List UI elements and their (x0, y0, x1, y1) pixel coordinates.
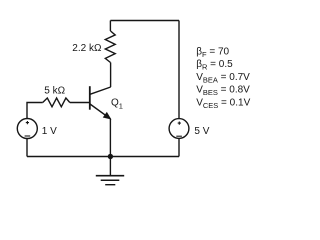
voltage source V2 5V (169, 119, 189, 139)
wire below 1V source (26, 139, 28, 157)
wire top rail (110, 20, 179, 22)
svg-text:βR = 0.5: βR = 0.5 (196, 59, 233, 72)
voltage source V1 1V (17, 119, 37, 139)
wire right vertical (top rail to 5V source) (178, 21, 180, 119)
svg-text:VBES = 0.8V: VBES = 0.8V (196, 85, 250, 98)
resistor 5 kΩ (43, 98, 70, 107)
wire bottom rail (27, 156, 179, 158)
wire emitter vertical (109, 119, 111, 157)
resistor 2.2 kΩ (105, 31, 115, 63)
junction dot (108, 154, 113, 159)
svg-text:VBEA = 0.7V: VBEA = 0.7V (196, 72, 250, 85)
wire collector top (rail to resistor) (109, 21, 111, 32)
wire below 5V source (178, 138, 180, 156)
svg-text:5 kΩ: 5 kΩ (44, 85, 65, 96)
wire base (left corner up and to 5k resistor) (27, 103, 43, 119)
svg-text:1 V: 1 V (42, 126, 57, 137)
svg-text:VCES = 0.1V: VCES = 0.1V (196, 98, 250, 111)
wire collector (resistor to transistor) (110, 63, 112, 88)
svg-text:5 V: 5 V (194, 126, 209, 137)
svg-text:βF = 70: βF = 70 (196, 46, 229, 59)
ground (96, 157, 124, 185)
transistor Q1 (90, 86, 111, 119)
svg-text:2.2 kΩ: 2.2 kΩ (72, 43, 102, 54)
wire base (5k resistor to transistor base) (70, 102, 89, 104)
svg-text:Q1: Q1 (111, 98, 123, 111)
